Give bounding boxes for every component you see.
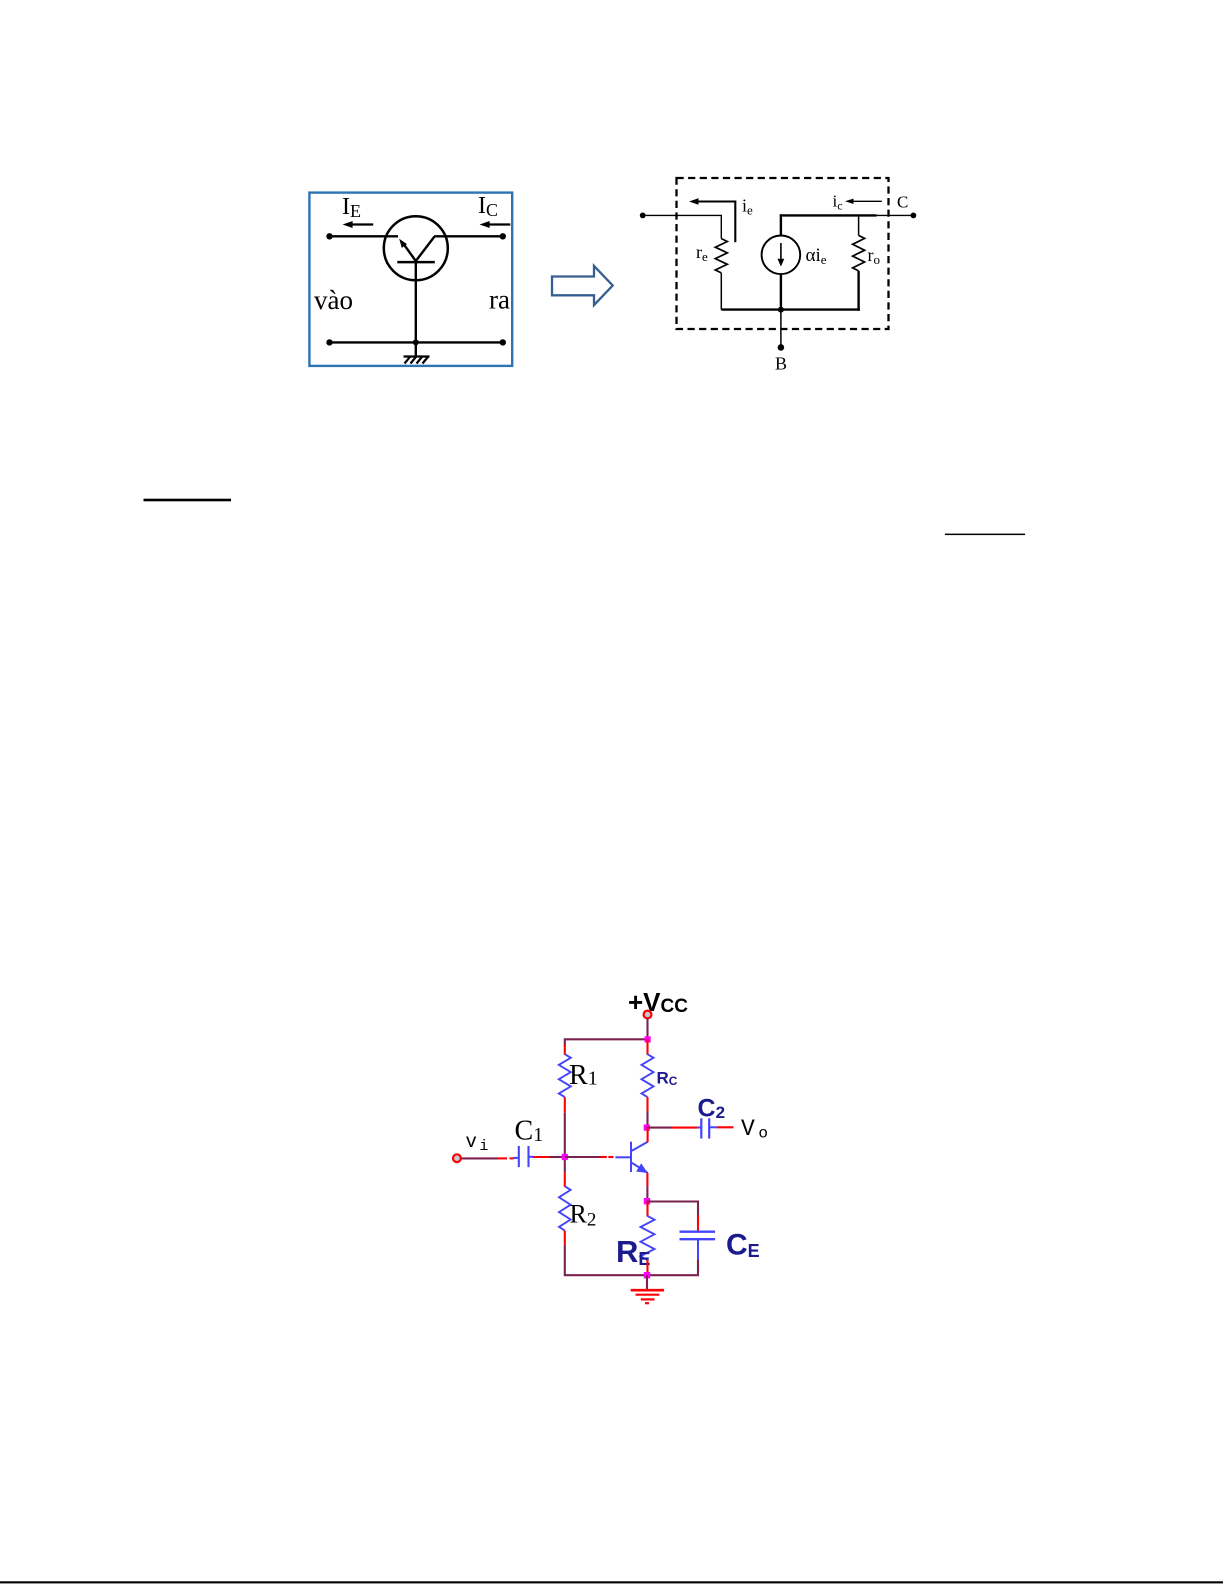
node bottom junction dot: [778, 307, 784, 313]
wire bottom bus right segment: [647, 1274, 699, 1276]
svg-text:R1: R1: [569, 1060, 598, 1091]
arrow IE current direction: [343, 221, 374, 228]
node Vcc terminal: [644, 1011, 652, 1019]
svg-text:IC: IC: [478, 193, 498, 220]
node E terminal dot: [640, 213, 646, 219]
wire source top lead: [780, 214, 782, 235]
wire bottom-left corner to ground bus: [565, 1245, 647, 1275]
wire ro top lead: [858, 215, 860, 235]
svg-text:R2: R2: [570, 1200, 597, 1231]
svg-text:CE: CE: [726, 1229, 760, 1262]
wire top rail with corner to R1: [565, 1039, 648, 1046]
resistor ro: [853, 235, 865, 271]
resistor R1: [559, 1054, 571, 1097]
wire R1 to R2 column (through base node): [564, 1113, 566, 1173]
wire vi to C1: [462, 1157, 514, 1159]
wire collector lead: [647, 1128, 649, 1143]
resistor re: [715, 239, 727, 273]
node base junction dot: [562, 1154, 568, 1160]
capacitor C1: [513, 1146, 533, 1167]
svg-text:vi: vi: [466, 1131, 489, 1155]
svg-text:+VCC: +VCC: [628, 987, 688, 1017]
transistor Q1 emitter arm with arrow: [399, 239, 416, 261]
node emitter terminal dot: [326, 233, 332, 239]
arrow ie current (bent): [689, 198, 735, 242]
wire source bottom lead: [780, 274, 782, 310]
wire ground stub: [646, 1275, 648, 1290]
wire thin to C terminal: [877, 214, 914, 216]
wire RE bottom lead: [646, 1260, 648, 1275]
svg-text:ra: ra: [489, 285, 510, 315]
wire C2 output lead: [717, 1126, 734, 1128]
wire R2 bottom lead: [564, 1231, 566, 1246]
wire collector junction to C2: [647, 1127, 698, 1129]
wire base junction to transistor: [565, 1156, 631, 1158]
wire collector (top right): [434, 235, 503, 237]
svg-text:C: C: [897, 193, 908, 212]
wire B lead: [780, 310, 782, 348]
wire bottom bus: [329, 341, 503, 343]
svg-text:vào: vào: [314, 285, 353, 315]
resistor Rc: [642, 1054, 654, 1097]
footer rule: [0, 1581, 1223, 1583]
capacitor C2: [697, 1118, 717, 1138]
wire Vcc terminal to rail: [646, 1019, 648, 1041]
arrow ic current: [845, 199, 882, 204]
resistor R2: [559, 1186, 571, 1230]
transistor Q1 base bar: [397, 261, 435, 264]
wire base down to bottom bus and ground: [415, 262, 417, 357]
node collector terminal dot: [500, 233, 506, 239]
wire top rail to C: [780, 214, 877, 216]
wire Rc bottom lead (red then maroon): [646, 1097, 648, 1128]
wire R1 top lead: [564, 1044, 566, 1055]
wire R1 bottom lead (red): [564, 1097, 566, 1113]
underline mark right: [945, 534, 1025, 536]
wire bottom rail: [721, 308, 860, 310]
node bottom left terminal dot: [326, 339, 332, 345]
wire RE top lead: [646, 1202, 648, 1217]
wire emitter junction to CE branch: [647, 1202, 698, 1231]
wire CE bottom lead: [697, 1260, 699, 1276]
box frame (blue): [309, 193, 512, 366]
dashed model boundary box: [677, 178, 889, 329]
svg-text:B: B: [775, 354, 787, 374]
arrow IC current direction: [480, 221, 511, 228]
ground (hatched): [404, 357, 430, 364]
transistor Q1 (NPN): [631, 1142, 648, 1173]
svg-text:IE: IE: [342, 194, 361, 221]
wire C1 to base junction: [533, 1156, 565, 1158]
svg-text:ic: ic: [833, 192, 843, 213]
node C terminal dot: [911, 213, 917, 219]
wire emitter (top left): [329, 235, 398, 237]
svg-text:Vo: Vo: [741, 1116, 768, 1143]
resistor RE: [641, 1216, 655, 1260]
node bottom right terminal dot: [500, 339, 506, 345]
ground symbol (red): [631, 1290, 664, 1303]
wire R2 top lead: [564, 1172, 566, 1187]
node vi input terminal: [453, 1154, 461, 1162]
transistor Q1 body circle: [384, 216, 448, 280]
svg-text:re: re: [696, 242, 708, 264]
svg-text:ro: ro: [868, 245, 881, 267]
node collector junction dot: [644, 1125, 650, 1131]
node Vcc rail junction dot: [645, 1036, 651, 1042]
wire emitter lead: [646, 1173, 648, 1202]
node base junction dot: [413, 339, 419, 345]
svg-text:ie: ie: [742, 196, 753, 218]
wire ro bottom lead: [857, 271, 859, 311]
svg-text:C1: C1: [515, 1116, 544, 1147]
current source alpha-ie circle: [762, 236, 801, 275]
node B terminal dot: [778, 344, 785, 351]
svg-text:αie: αie: [806, 245, 827, 267]
wire Rc top lead: [646, 1039, 648, 1055]
svg-text:RC: RC: [657, 1069, 678, 1089]
capacitor CE: [680, 1232, 716, 1260]
block arrow: [552, 266, 613, 305]
wire emitter lead to re: [643, 215, 722, 238]
transistor Q1 collector arm: [416, 237, 435, 262]
svg-text:C2: C2: [698, 1095, 726, 1123]
node ground junction dot: [644, 1272, 650, 1278]
underline mark left: [144, 499, 232, 502]
current source arrow: [778, 243, 785, 267]
wire re bottom lead: [720, 273, 722, 310]
node emitter junction dot: [644, 1198, 650, 1204]
